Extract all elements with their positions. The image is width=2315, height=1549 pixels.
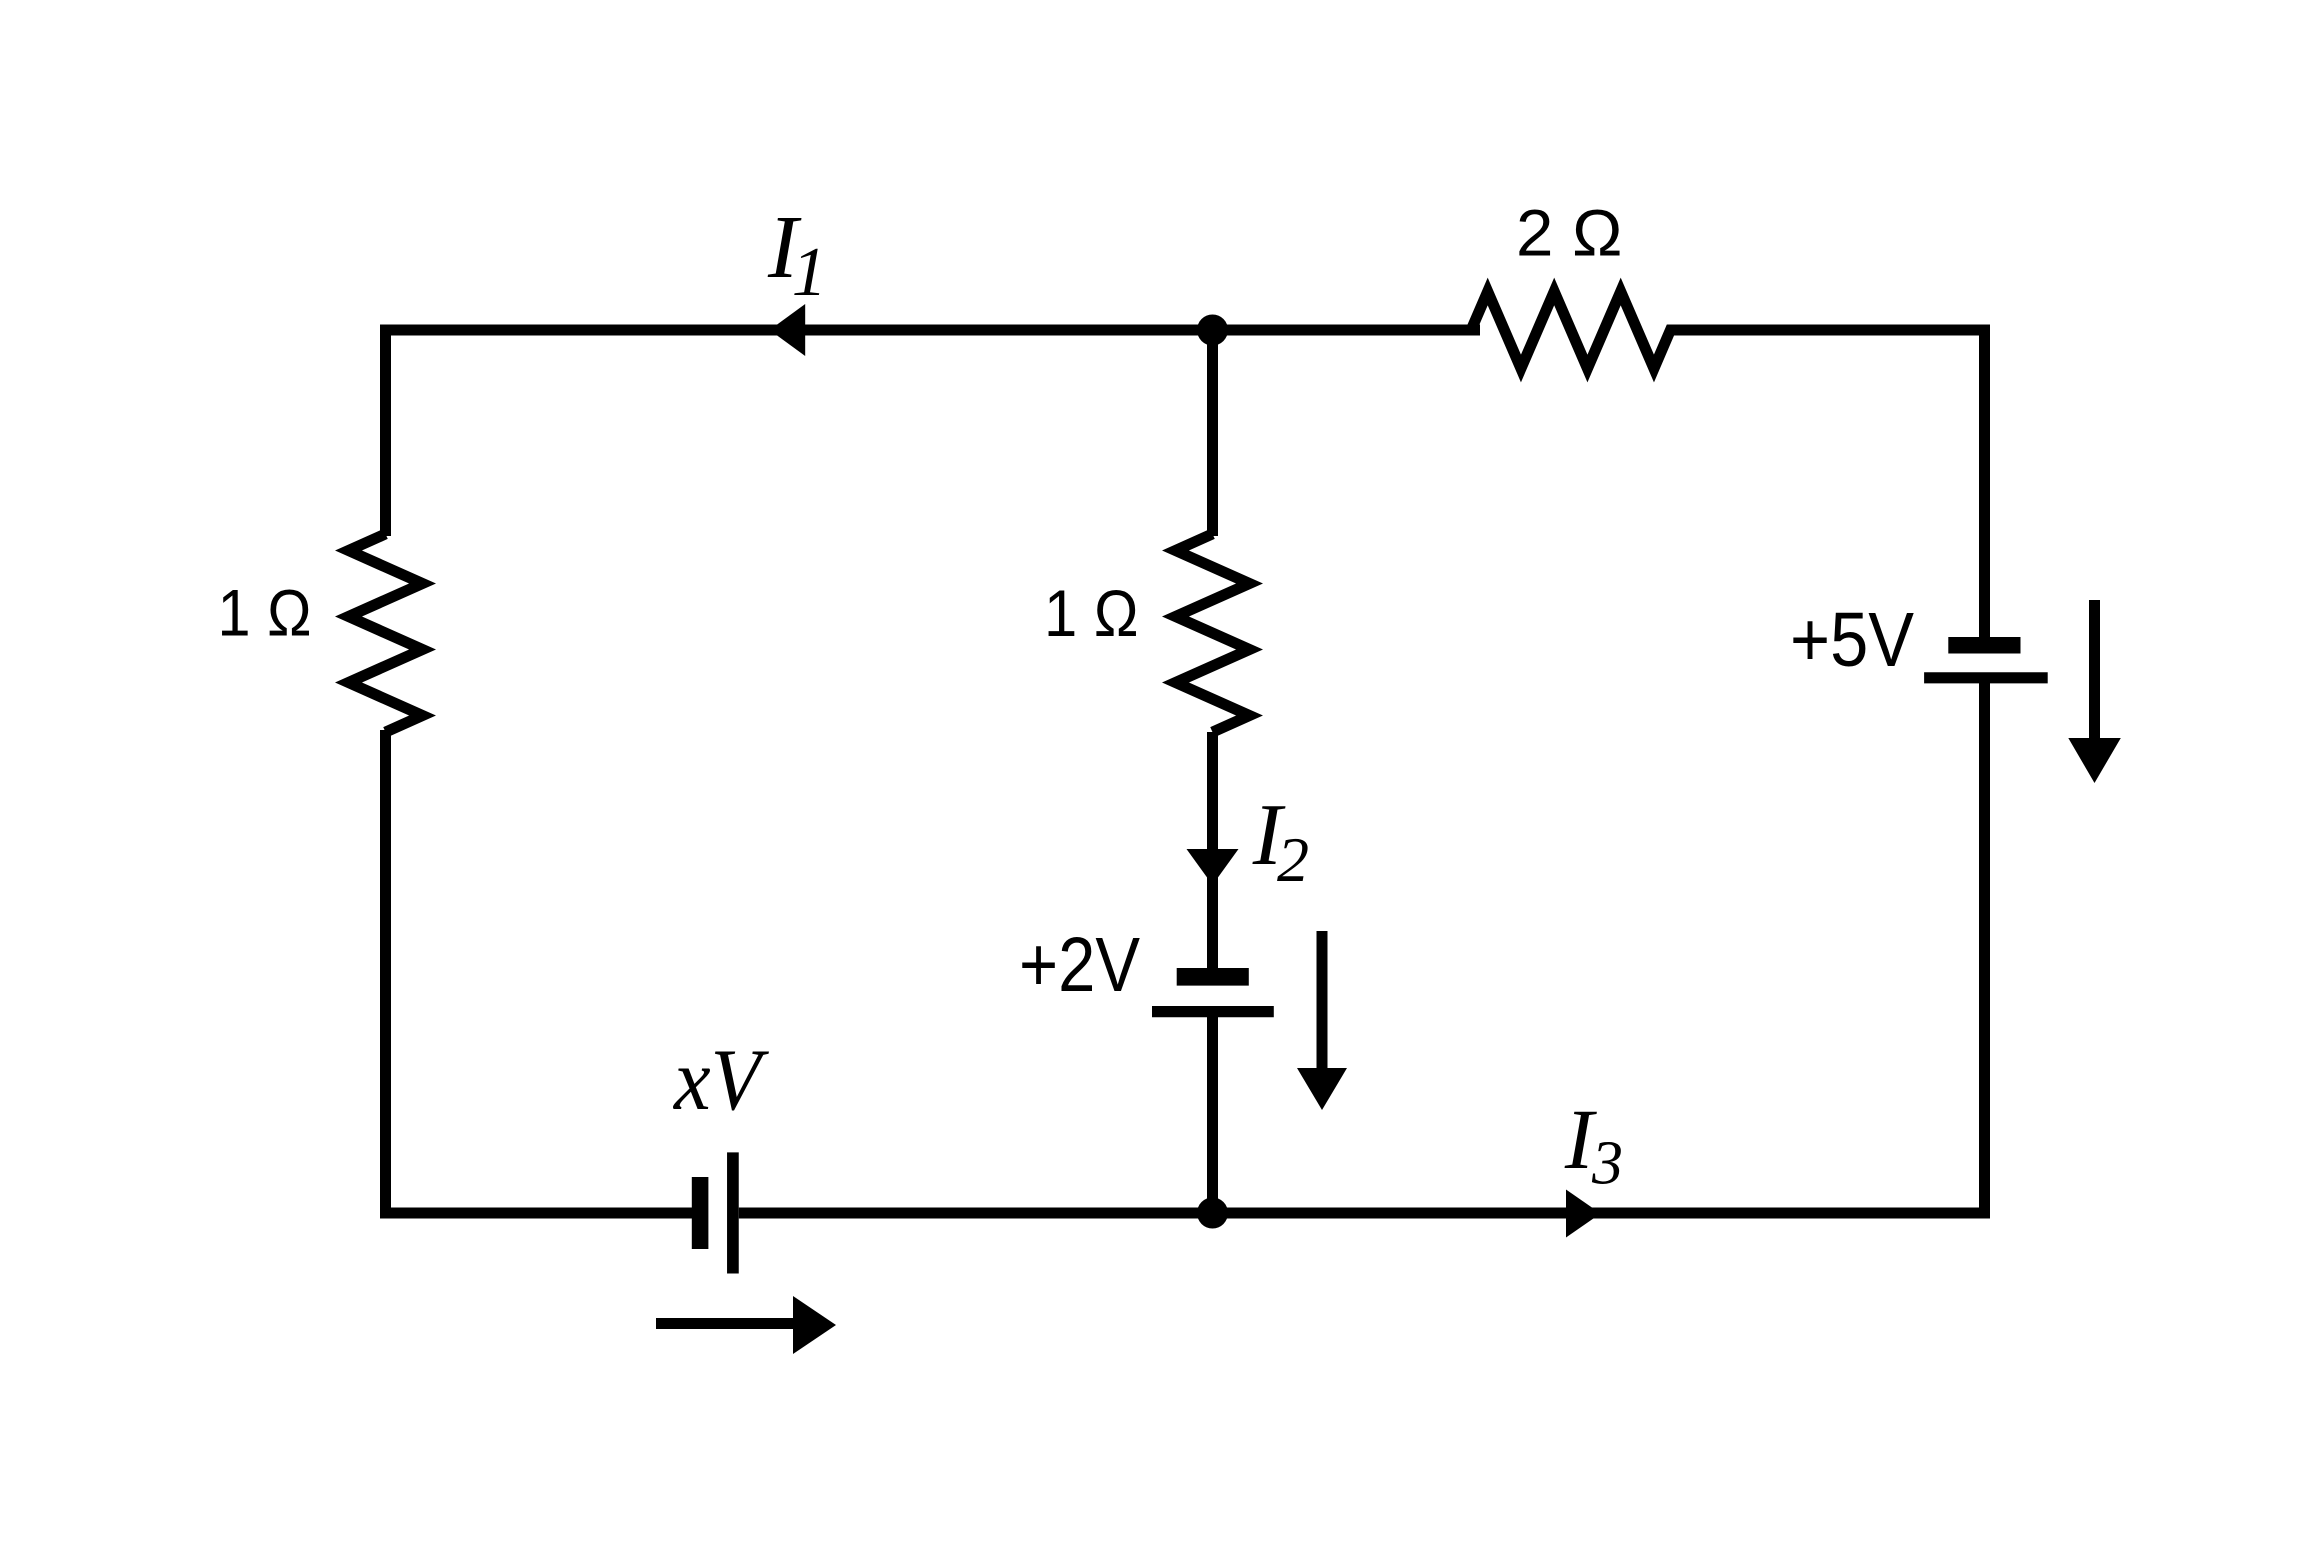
arrowhead: free arrow below xV (pointing right) [793, 1296, 836, 1354]
resistor 2 ohm (top right, horizontal zigzag) [1460, 292, 1682, 369]
arrow shaft: free current arrow right of +5V battery [2089, 600, 2100, 742]
arrowhead of I1 (on top wire, pointing left) [770, 304, 806, 356]
battery +2V bottom plate (long thin, horizontal) [1152, 1006, 1274, 1017]
wire: right side below +5V battery, bottom-right corner, bottom side to xV battery [739, 676, 1985, 1213]
svg-text:1: 1 [792, 234, 827, 311]
wire: middle branch from node A down to middle resistor [1207, 330, 1218, 536]
svg-text:1 Ω: 1 Ω [218, 576, 312, 650]
svg-text:xV: xV [672, 1032, 770, 1129]
svg-text:1 Ω: 1 Ω [1044, 576, 1139, 650]
arrowhead: free arrow right of +5V (pointing down) [2068, 738, 2121, 783]
arrowhead of I2 (on middle wire, pointing down) [1187, 849, 1239, 885]
arrow shaft: free current arrow below xV battery [656, 1318, 797, 1329]
svg-text:3: 3 [1591, 1129, 1623, 1197]
svg-text:+2V: +2V [1019, 922, 1141, 1008]
battery xV right plate (long thin, vertical) [727, 1152, 739, 1273]
battery +5V top plate (short thick, horizontal) [1948, 637, 2020, 654]
wire: middle branch between resistor and +2V battery (carries I2 arrow) [1207, 732, 1218, 972]
resistor 1 ohm (middle branch, vertical zigzag) [1176, 534, 1250, 732]
node A junction dot (top) [1197, 315, 1228, 346]
battery +5V bottom plate (long thin, horizontal) [1924, 672, 2048, 683]
resistor 1 ohm (left side, vertical zigzag) [349, 534, 423, 732]
wire: top side from top-left corner to 2-ohm resistor (through node A) [386, 330, 1481, 536]
node B junction dot (bottom) [1197, 1198, 1228, 1229]
arrowhead of I3 (on bottom wire, pointing right) [1566, 1190, 1601, 1238]
wire: middle branch from +2V battery down to node B [1207, 1012, 1218, 1213]
arrow shaft: free current arrow right of +2V battery [1317, 931, 1328, 1072]
svg-text:+5V: +5V [1790, 597, 1915, 683]
svg-text:2: 2 [1277, 824, 1309, 895]
battery xV left plate (short thick, vertical) [692, 1177, 709, 1249]
wire: from 2-ohm resistor to top-right corner down to +5V battery [1670, 330, 1985, 642]
arrowhead: free arrow right of +2V (pointing down) [1297, 1068, 1347, 1110]
battery +2V top plate (short thick, horizontal) [1177, 968, 1249, 986]
svg-text:2 Ω: 2 Ω [1516, 196, 1623, 270]
wire: from xV battery to bottom-left corner up to left 1-ohm resistor [386, 730, 701, 1213]
